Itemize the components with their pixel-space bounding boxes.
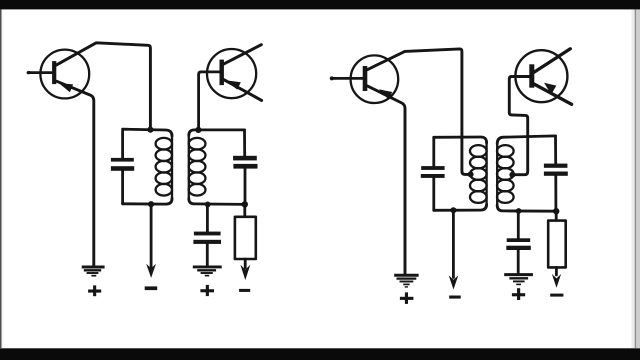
- wire Q4 emitter lead: [534, 84, 572, 104]
- minus terminal label 1: [145, 286, 158, 290]
- inductor L1: [156, 134, 172, 200]
- wire tank4 right upper: [554, 136, 557, 164]
- wire R2 top stub: [555, 211, 558, 220]
- node tank4 bottom R2 junction: [553, 208, 559, 214]
- wire Q3 base lead: [330, 76, 363, 80]
- wire tank1 left upper: [121, 131, 124, 158]
- node tank1 top junction: [147, 127, 153, 133]
- transistor Q3: [351, 55, 399, 103]
- capacitor C1: [111, 158, 134, 171]
- wire tank2 top: [189, 130, 245, 136]
- plus terminal label 2: [200, 285, 214, 296]
- wire tank4 top: [497, 136, 555, 144]
- capacitor C4: [421, 166, 445, 178]
- wire tank3 left upper: [432, 137, 435, 166]
- node tank3 bottom junction: [450, 207, 456, 213]
- wire tank3 top: [434, 137, 487, 143]
- wire tank1 top: [123, 129, 172, 136]
- node tank4 bottom C6 junction: [516, 208, 522, 214]
- wire Q1 emitter down to ground: [57, 81, 94, 266]
- wire R2 bottom stub: [555, 267, 558, 275]
- arrow to minus terminal 4: [552, 274, 561, 288]
- arrow to minus terminal 3: [449, 275, 459, 289]
- transistor Q4: [515, 50, 567, 102]
- wire arrow negative lead tank1: [150, 204, 153, 267]
- wire tank2 bottom: [189, 199, 245, 205]
- wire tank2 right upper: [243, 130, 246, 156]
- plus terminal label 1: [88, 285, 101, 296]
- transistor Q2: [207, 49, 256, 98]
- node L4 tap junction: [509, 172, 515, 178]
- wire Q4 collector lead: [534, 49, 570, 73]
- wire Q3 collector to L3 tap: [367, 49, 470, 174]
- wire Q2 collector lead: [223, 45, 262, 65]
- plus terminal label 3: [400, 292, 414, 304]
- wire Q1 base lead: [27, 71, 51, 74]
- wire tank3 left lower: [432, 178, 435, 210]
- transistor Q1: [40, 50, 89, 99]
- minus terminal label 2: [239, 289, 250, 292]
- wire tank4 bottom: [497, 205, 556, 211]
- wire R1 top stub: [243, 204, 246, 217]
- node tank2 bottom R1 junction: [242, 201, 248, 207]
- wire Q3 emitter down to ground: [367, 86, 405, 274]
- arrow to minus terminal 1: [146, 264, 156, 278]
- ground under Q3 emitter: [394, 275, 418, 287]
- node tank1 bottom junction: [148, 201, 154, 207]
- wire Q4 base to L4 tap: [509, 77, 529, 175]
- capacitor C2: [233, 156, 257, 169]
- wire tank1 left lower: [121, 171, 124, 204]
- inductor L4: [497, 143, 514, 207]
- capacitor C5: [544, 164, 568, 176]
- node tank2 bottom C3 junction: [205, 202, 211, 208]
- ground under C3: [193, 267, 222, 276]
- plus terminal label 4: [512, 288, 525, 300]
- wire Q1 collector to tank L1 top: [56, 43, 150, 129]
- wire tank3 bottom: [434, 204, 487, 210]
- wire C3 upper lead: [206, 204, 209, 231]
- minus terminal label 4: [550, 294, 563, 297]
- wire R1 bottom stub: [244, 259, 247, 268]
- node L3 tap junction: [468, 171, 474, 177]
- wire C3 lower lead: [206, 244, 209, 266]
- wire Q2 base to tank2 top: [199, 72, 220, 130]
- inductor L3: [470, 142, 487, 206]
- resistor R1: [235, 217, 256, 259]
- capacitor C3: [193, 232, 221, 244]
- wire C6 lower lead: [517, 250, 520, 273]
- wire C6 upper lead: [517, 211, 520, 238]
- capacitor C6: [506, 238, 531, 250]
- wire arrow negative lead tank3: [452, 210, 455, 277]
- minus terminal label 3: [449, 296, 461, 299]
- wire tank4 right lower: [554, 176, 557, 211]
- ground under C6: [504, 275, 533, 285]
- wire tank1 bottom: [123, 199, 172, 205]
- wire tank2 right lower: [244, 169, 247, 205]
- node tank2 top junction: [195, 127, 201, 133]
- arrow to minus terminal 2: [240, 265, 250, 280]
- resistor R2: [548, 221, 566, 268]
- ground under Q1 emitter: [82, 267, 105, 276]
- inductor L2: [189, 134, 206, 199]
- wire Q2 emitter lead: [223, 79, 261, 100]
